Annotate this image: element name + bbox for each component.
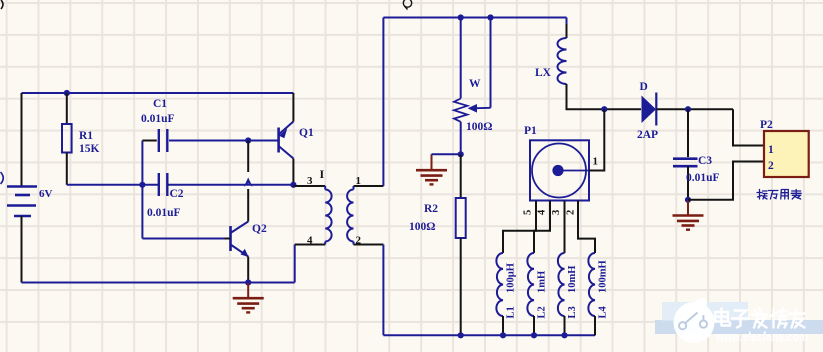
- wire LX to diode row: [567, 84, 642, 109]
- node C1/C2/Q2-base junction: [139, 182, 145, 188]
- svg-text:P1: P1: [524, 125, 537, 137]
- transistor Q2 (NPN): [231, 222, 249, 283]
- watermark logo elecfans: [674, 298, 715, 343]
- stray glyph top-left parenthesis: [1, 0, 3, 9]
- wire mid row from R1 to C2: [67, 184, 160, 186]
- wire P1 pin5 to L1: [503, 201, 536, 254]
- node R1 top junction: [64, 90, 70, 96]
- svg-text:10mH: 10mH: [567, 266, 578, 293]
- wire top rail left circuit: [22, 92, 294, 94]
- node P1 pin1 junction: [601, 106, 607, 112]
- svg-text:100mH: 100mH: [598, 260, 609, 293]
- wire secondary bottom riser: [382, 245, 384, 336]
- svg-text:3: 3: [551, 210, 562, 215]
- wire P1 pin4 to L2: [534, 201, 550, 254]
- potentiometer W zigzag: [454, 99, 467, 122]
- svg-text:100Ω: 100Ω: [466, 121, 492, 133]
- wire Q1 base row: [169, 140, 278, 142]
- svg-text:0.01uF: 0.01uF: [141, 113, 175, 125]
- svg-text:C2: C2: [170, 188, 184, 200]
- wire Q2 base: [142, 238, 224, 240]
- wire top rail right circuit: [383, 17, 566, 19]
- svg-text:R1: R1: [79, 130, 93, 142]
- svg-text:0.01uF: 0.01uF: [686, 172, 720, 184]
- node W top junction: [458, 14, 464, 20]
- wire wiper feed vertical: [490, 18, 492, 108]
- wire P1 pin3 to L3: [564, 201, 566, 254]
- ground at Q2 emitter: [233, 283, 264, 312]
- svg-text:0.01uF: 0.01uF: [147, 207, 181, 219]
- svg-text:100μH: 100μH: [506, 263, 517, 293]
- wire P1 pin1 to diode row: [589, 109, 604, 170]
- ground near R2: [416, 154, 447, 184]
- diode D 2AP: [642, 93, 657, 126]
- svg-text:L4: L4: [598, 305, 609, 318]
- wire mid row C2 to Q1 collector node: [169, 184, 294, 186]
- svg-text:L2: L2: [537, 306, 548, 318]
- svg-text:2: 2: [566, 210, 577, 215]
- node L3 bottom: [561, 332, 567, 338]
- svg-text:1: 1: [593, 156, 599, 168]
- capacitor C2: [159, 173, 168, 196]
- svg-text:LX: LX: [535, 67, 552, 79]
- svg-text:6V: 6V: [39, 188, 53, 200]
- svg-text:Q2: Q2: [252, 223, 267, 235]
- svg-text:5: 5: [523, 210, 534, 215]
- inductor L2: [527, 253, 534, 335]
- watermark text 电子发烧友: [715, 309, 805, 328]
- wire battery positive lead: [21, 93, 23, 186]
- node R2 bottom junction: [458, 332, 464, 338]
- inductor L1: [496, 253, 503, 335]
- connector P1 body: [530, 140, 589, 200]
- svg-text:L1: L1: [506, 306, 517, 318]
- svg-text:C1: C1: [153, 98, 167, 110]
- capacitor C1: [142, 129, 250, 152]
- capacitor C3: [673, 109, 698, 200]
- wire Q2 collector vertical with arrow: [244, 141, 253, 222]
- transistor Q1 (PNP): [279, 93, 294, 185]
- node Q1 collector junction: [290, 182, 296, 188]
- svg-text:L3: L3: [567, 306, 578, 318]
- wire secondary top riser: [382, 18, 384, 187]
- inductor L3: [558, 253, 565, 335]
- wire battery negative lead: [21, 216, 23, 283]
- node ground tee junction: [458, 151, 464, 157]
- connector P2 body: [764, 131, 809, 177]
- node wiper feed junction: [487, 14, 493, 20]
- wiper arrow of W: [468, 104, 491, 113]
- svg-text:www.elecfans.com: www.elecfans.com: [715, 329, 808, 344]
- watermark band: [655, 320, 823, 334]
- wire P2 pin2 to C3: [688, 162, 764, 200]
- wire C1 branch vertical: [141, 141, 143, 239]
- svg-text:2AP: 2AP: [637, 129, 658, 141]
- wire top rail to W: [460, 18, 462, 99]
- svg-text:P2: P2: [760, 119, 773, 131]
- svg-text:4: 4: [537, 209, 548, 215]
- wire top rail corner to LX: [566, 18, 568, 27]
- stray glyph Q at top: [403, 0, 411, 7]
- resistor R2: [456, 154, 466, 335]
- transformer T primary winding: [293, 186, 331, 245]
- wire P2 pin1: [733, 109, 764, 145]
- wire L4 bottom corner: [594, 316, 596, 335]
- node L1 bottom: [500, 332, 506, 338]
- svg-text:4: 4: [307, 235, 313, 247]
- wire bottom rail left circuit: [22, 282, 295, 284]
- svg-text:2: 2: [356, 235, 362, 247]
- wire diode to P2 corner: [656, 108, 733, 110]
- svg-text:100Ω: 100Ω: [409, 221, 435, 233]
- inductor L4: [588, 253, 595, 335]
- label 接万用表 (connect multimeter): [757, 190, 801, 200]
- resistor R1: [62, 93, 72, 185]
- svg-text:1: 1: [356, 175, 362, 187]
- wire to ground arm: [432, 153, 461, 155]
- node C3 top junction: [685, 106, 691, 112]
- node Q2 emitter junction: [245, 279, 251, 285]
- svg-text:1: 1: [768, 144, 774, 156]
- wire bottom rail right circuit: [383, 334, 595, 336]
- svg-text:2: 2: [768, 160, 774, 172]
- svg-text:C3: C3: [698, 155, 712, 167]
- stray glyph left parenthesis mid: [1, 172, 4, 184]
- svg-text:W: W: [469, 78, 481, 90]
- inductor LX: [558, 38, 567, 84]
- svg-text:15K: 15K: [79, 143, 100, 155]
- ground at C3: [673, 200, 704, 229]
- wire P1 pin2 to L4: [578, 201, 595, 254]
- node Q2 collector to Q1 base junction: [245, 137, 251, 143]
- transformer T secondary winding: [347, 186, 383, 245]
- svg-text:3: 3: [307, 175, 313, 187]
- svg-text:R2: R2: [424, 203, 438, 215]
- node C3 bottom junction: [685, 197, 691, 203]
- wire W to R2: [460, 122, 462, 155]
- svg-text:1mH: 1mH: [537, 271, 548, 293]
- svg-text:D: D: [640, 81, 648, 93]
- battery B1 6V: [7, 187, 37, 217]
- svg-text:I: I: [320, 167, 325, 181]
- wire to transformer pin4 riser: [294, 245, 296, 283]
- node L2 bottom: [531, 332, 537, 338]
- svg-text:Q1: Q1: [299, 127, 314, 139]
